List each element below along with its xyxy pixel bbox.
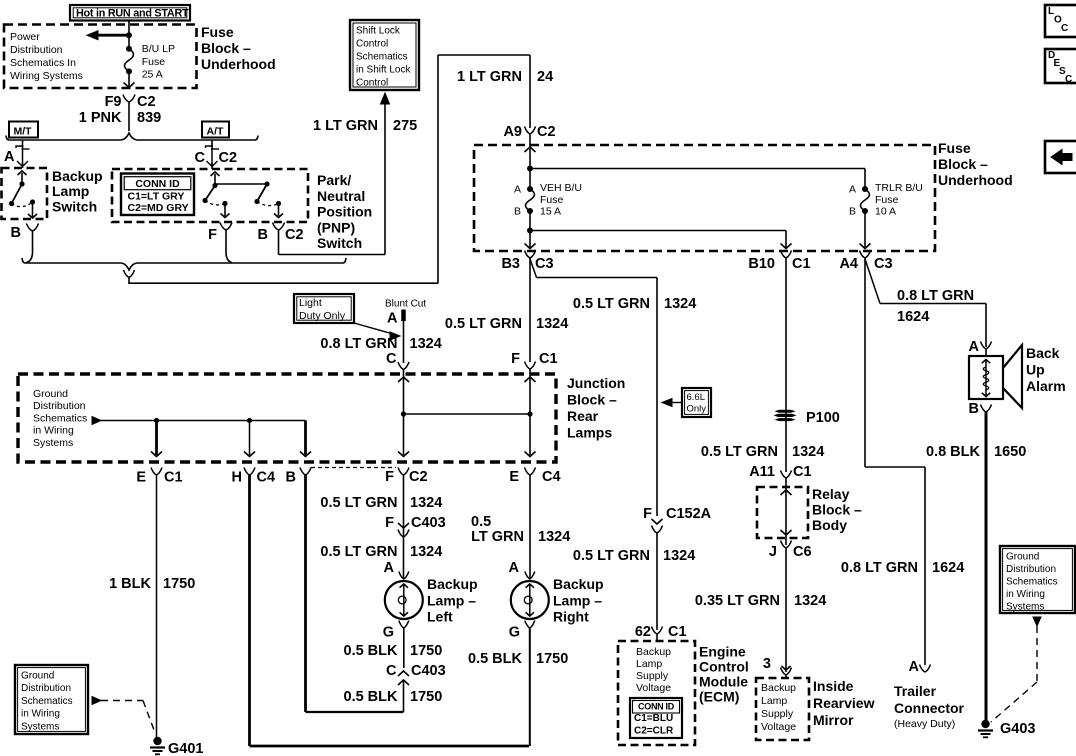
svg-text:Back: Back	[1026, 345, 1060, 361]
svg-text:J: J	[769, 544, 777, 560]
svg-text:F9: F9	[105, 94, 122, 110]
svg-text:C2: C2	[219, 150, 238, 166]
svg-text:C4: C4	[542, 469, 561, 485]
branch wire to B10 output	[530, 230, 786, 232]
svg-text:A: A	[509, 560, 520, 576]
brace splitting M/T and A/T	[6, 136, 9, 141]
dashed link B to F C2	[311, 467, 396, 469]
svg-text:Block –: Block –	[812, 502, 862, 518]
wire A/T branch down	[211, 140, 213, 147]
svg-text:0.5 LT GRN: 0.5 LT GRN	[573, 548, 650, 564]
junction block rear lamps dashed box	[18, 374, 556, 462]
relay block body dashed box	[757, 487, 808, 538]
svg-text:F: F	[385, 469, 394, 485]
ground bus drop to E C1	[155, 421, 158, 456]
svg-text:in Wiring: in Wiring	[1006, 589, 1045, 600]
svg-text:C2=MD GRY: C2=MD GRY	[128, 202, 189, 214]
svg-text:A11: A11	[749, 464, 775, 480]
svg-text:Underhood: Underhood	[201, 56, 276, 72]
PNP switch internal contacts	[214, 174, 216, 186]
pointer arrow light duty to wire	[354, 323, 393, 334]
svg-text:1750: 1750	[410, 689, 442, 705]
svg-text:B3: B3	[501, 256, 520, 272]
inside rearview mirror dashed box	[756, 678, 809, 740]
lt grn bus in junction block	[404, 413, 531, 415]
connector C C2 into PNP switch	[211, 146, 213, 167]
wire VEH fuse output	[529, 211, 531, 248]
svg-text:C2: C2	[137, 94, 156, 110]
svg-text:Voltage: Voltage	[761, 721, 796, 733]
svg-text:Relay: Relay	[812, 486, 850, 502]
svg-text:Systems: Systems	[1006, 602, 1044, 613]
svg-text:Schematics: Schematics	[33, 412, 87, 424]
branch wire A4 to back up alarm	[865, 259, 880, 304]
svg-text:Position: Position	[317, 204, 372, 220]
svg-text:C6: C6	[793, 544, 812, 560]
svg-text:Fuse: Fuse	[875, 194, 899, 206]
svg-text:Control: Control	[356, 39, 388, 50]
svg-text:P100: P100	[806, 410, 840, 426]
conn id table C1=LT GRY C2=MD GRY	[121, 174, 194, 216]
note box 6.6L Only	[682, 388, 711, 417]
svg-text:1324: 1324	[538, 529, 570, 545]
wire 0.8 BLK to G403	[985, 412, 988, 723]
svg-text:3: 3	[763, 656, 771, 672]
svg-text:0.8 BLK: 0.8 BLK	[926, 444, 981, 460]
ground bus drop to H C4	[249, 421, 251, 456]
svg-text:TRLR B/U: TRLR B/U	[875, 182, 923, 194]
wire A9 into fuses	[529, 134, 531, 189]
svg-text:Body: Body	[812, 517, 847, 533]
svg-text:0.5 BLK: 0.5 BLK	[468, 651, 523, 667]
svg-text:Fuse: Fuse	[201, 24, 234, 40]
svg-text:Alarm: Alarm	[1026, 378, 1066, 394]
svg-text:Control: Control	[356, 78, 388, 89]
svg-text:1750: 1750	[163, 576, 195, 592]
svg-text:1324: 1324	[663, 548, 695, 564]
svg-text:Shift Lock: Shift Lock	[356, 26, 401, 37]
svg-text:C403: C403	[411, 663, 446, 679]
svg-text:E: E	[509, 469, 519, 485]
wire E C1 to ground G401	[156, 475, 158, 738]
svg-text:0.8 LT GRN: 0.8 LT GRN	[320, 336, 397, 352]
note box Ground Distribution Schematics bottom left	[15, 665, 88, 734]
svg-text:C4: C4	[257, 470, 276, 486]
svg-text:F: F	[511, 351, 520, 367]
svg-text:C1: C1	[164, 470, 183, 486]
svg-text:VEH B/U: VEH B/U	[540, 182, 582, 194]
note box Light Duty Only	[294, 294, 354, 323]
svg-text:0.5: 0.5	[471, 514, 491, 530]
svg-text:Left: Left	[427, 609, 453, 625]
button LOC	[1045, 5, 1076, 37]
svg-text:Voltage: Voltage	[636, 682, 671, 694]
svg-text:M/T: M/T	[14, 126, 33, 138]
connector G backup lamp left	[399, 621, 409, 629]
svg-text:1324: 1324	[664, 296, 696, 312]
svg-text:Block –: Block –	[567, 392, 617, 408]
svg-text:Neutral: Neutral	[317, 188, 365, 204]
svg-text:C3: C3	[535, 256, 554, 272]
svg-text:Engine: Engine	[699, 644, 746, 660]
svg-text:A: A	[514, 184, 521, 196]
back up alarm coil	[985, 349, 987, 356]
svg-text:Lamp: Lamp	[761, 695, 787, 707]
svg-text:A: A	[969, 339, 980, 355]
ground G403	[981, 720, 989, 728]
svg-text:Park/: Park/	[317, 172, 351, 188]
wire F C2 down to backup lamp left	[403, 475, 405, 578]
pointer dashed to G401	[92, 697, 101, 705]
svg-text:Module: Module	[699, 674, 748, 690]
svg-text:B: B	[514, 206, 521, 218]
svg-text:1 LT GRN: 1 LT GRN	[457, 69, 522, 85]
pointer arrow 6.6L to wire	[671, 402, 682, 404]
svg-text:C2: C2	[537, 124, 556, 140]
engine control module dashed box	[618, 641, 695, 745]
svg-text:Backup: Backup	[636, 646, 671, 658]
svg-text:B: B	[11, 225, 21, 241]
wire B to backup lamp left ground	[304, 475, 307, 712]
button back arrow	[1045, 141, 1076, 173]
wire A4 down to trailer connector	[864, 258, 866, 467]
svg-text:62: 62	[635, 624, 651, 640]
svg-text:1750: 1750	[410, 643, 442, 659]
svg-text:Backup: Backup	[427, 576, 478, 592]
branch wire B3 to C152A / ECM	[530, 259, 537, 278]
fuse block underhood dashed box (power distribution)	[4, 25, 197, 89]
svg-text:Switch: Switch	[317, 235, 362, 251]
note box Shift Lock Control Schematics	[350, 20, 419, 90]
svg-text:Systems: Systems	[33, 437, 73, 449]
svg-text:0.5 LT GRN: 0.5 LT GRN	[573, 296, 650, 312]
svg-text:Distribution: Distribution	[33, 400, 86, 412]
svg-text:0.8 LT GRN: 0.8 LT GRN	[897, 288, 974, 304]
svg-text:Hot in RUN and START: Hot in RUN and START	[76, 8, 189, 20]
svg-text:G403: G403	[1000, 721, 1035, 737]
svg-text:Schematics In: Schematics In	[10, 57, 76, 69]
svg-text:F: F	[208, 227, 217, 243]
svg-text:Ground: Ground	[21, 671, 54, 682]
svg-text:C: C	[1065, 74, 1072, 85]
backup lamp switch contacts	[21, 173, 23, 184]
svg-text:1 PNK: 1 PNK	[79, 110, 122, 126]
wire B3 down to junction block F C1	[529, 258, 531, 362]
svg-text:Lamp –: Lamp –	[553, 592, 602, 608]
svg-text:in Wiring: in Wiring	[21, 709, 60, 720]
wire E C4 down to backup lamp right	[529, 475, 531, 578]
svg-text:Ground: Ground	[1006, 552, 1039, 563]
svg-text:Duty Only: Duty Only	[299, 310, 346, 322]
svg-text:A: A	[387, 311, 398, 327]
svg-text:E: E	[136, 470, 146, 486]
svg-text:G: G	[383, 625, 394, 641]
wire fuse output exits box	[128, 71, 130, 87]
svg-text:1324: 1324	[410, 495, 442, 511]
svg-text:F: F	[643, 506, 652, 522]
svg-text:C2: C2	[285, 227, 304, 243]
svg-text:0.5 BLK: 0.5 BLK	[344, 643, 399, 659]
svg-text:Block –: Block –	[201, 40, 251, 56]
svg-text:Mirror: Mirror	[813, 712, 854, 728]
svg-text:Connector: Connector	[894, 700, 965, 716]
svg-text:Right: Right	[553, 609, 589, 625]
svg-text:839: 839	[137, 110, 161, 126]
svg-text:Systems: Systems	[21, 721, 59, 732]
svg-text:C1: C1	[539, 351, 558, 367]
svg-text:Power: Power	[10, 31, 40, 43]
svg-text:C: C	[1061, 23, 1068, 34]
svg-text:Rearview: Rearview	[813, 695, 875, 711]
svg-text:1324: 1324	[410, 336, 442, 352]
ground bus drop to B	[304, 421, 307, 456]
svg-text:LT GRN: LT GRN	[471, 529, 524, 545]
svg-text:Block –: Block –	[938, 156, 988, 172]
brace merging M/T and A/T outputs	[22, 258, 25, 263]
wire J C6 down to mirror	[785, 548, 787, 672]
svg-text:1324: 1324	[536, 316, 568, 332]
wire merge output to fuse block underhood	[129, 282, 438, 284]
svg-text:Lamp: Lamp	[636, 658, 662, 670]
note box Ground Distribution Schematics right	[1000, 546, 1075, 613]
svg-text:0.5 BLK: 0.5 BLK	[344, 689, 399, 705]
svg-text:25 A: 25 A	[142, 69, 163, 81]
svg-text:Lamps: Lamps	[567, 425, 612, 441]
svg-text:B10: B10	[748, 256, 775, 272]
svg-text:C1=BLU: C1=BLU	[634, 713, 673, 724]
svg-text:0.8 LT GRN: 0.8 LT GRN	[841, 560, 918, 576]
svg-text:1 BLK: 1 BLK	[109, 576, 151, 592]
branch wire to TRLR fuse	[530, 168, 865, 170]
svg-text:Lamp –: Lamp –	[427, 592, 476, 608]
svg-text:B: B	[969, 401, 979, 417]
svg-text:Rear: Rear	[567, 408, 599, 424]
svg-text:24: 24	[537, 69, 553, 85]
svg-text:1650: 1650	[994, 444, 1026, 460]
svg-text:0.5 LT GRN: 0.5 LT GRN	[701, 444, 778, 460]
wire B10 down through P100	[785, 258, 787, 472]
svg-text:275: 275	[393, 118, 417, 134]
svg-text:Schematics: Schematics	[1006, 577, 1058, 588]
svg-text:1 LT GRN: 1 LT GRN	[313, 118, 378, 134]
tag M/T	[9, 122, 38, 138]
svg-text:Junction: Junction	[567, 375, 625, 391]
svg-text:CONN ID: CONN ID	[135, 178, 180, 190]
svg-text:Only: Only	[687, 404, 707, 415]
power feed tag box Hot in RUN and START	[70, 5, 190, 21]
fuse block underhood dashed box right	[474, 145, 935, 251]
wire TRLR fuse output	[864, 211, 866, 248]
svg-text:CONN ID: CONN ID	[638, 702, 675, 712]
connector below merge brace	[124, 270, 135, 278]
svg-text:Backup: Backup	[52, 168, 103, 184]
grommet P100	[775, 410, 796, 413]
svg-text:Control: Control	[699, 659, 749, 675]
svg-text:Underhood: Underhood	[938, 172, 1013, 188]
pointer dashed to G403	[1033, 617, 1041, 626]
wire F C1 to E C4 through junction block	[529, 374, 531, 455]
svg-text:Wiring Systems: Wiring Systems	[10, 70, 83, 82]
ground bus in junction block	[92, 417, 101, 425]
svg-text:1624: 1624	[932, 560, 964, 576]
connector G backup lamp right	[525, 621, 535, 629]
svg-text:C1: C1	[668, 624, 687, 640]
svg-text:C: C	[386, 663, 397, 679]
svg-text:0.5 LT GRN: 0.5 LT GRN	[445, 316, 522, 332]
svg-text:Backup: Backup	[761, 682, 796, 694]
svg-text:Light: Light	[299, 297, 322, 309]
svg-text:(Heavy Duty): (Heavy Duty)	[894, 718, 955, 730]
svg-text:1750: 1750	[536, 651, 568, 667]
connector A of backup lamp switch	[22, 146, 24, 167]
backup lamp right bulb	[511, 581, 549, 619]
svg-text:B: B	[849, 206, 856, 218]
svg-text:B/U LP: B/U LP	[142, 43, 175, 55]
wire B C2 to shift lock control	[278, 230, 280, 255]
svg-text:(PNP): (PNP)	[317, 219, 355, 235]
svg-text:0.5 LT GRN: 0.5 LT GRN	[320, 495, 397, 511]
connector F9 C2	[123, 95, 135, 103]
svg-text:C152A: C152A	[666, 506, 712, 522]
svg-text:Distribution: Distribution	[1006, 564, 1056, 575]
svg-text:6.6L: 6.6L	[687, 392, 706, 403]
svg-text:A: A	[4, 149, 15, 165]
svg-text:Blunt Cut: Blunt Cut	[385, 299, 426, 310]
svg-text:1324: 1324	[792, 444, 824, 460]
svg-text:Supply: Supply	[761, 708, 794, 720]
svg-text:G401: G401	[168, 741, 203, 756]
svg-text:C: C	[195, 150, 206, 166]
svg-text:C1: C1	[792, 256, 811, 272]
svg-text:1624: 1624	[897, 309, 929, 325]
svg-text:B: B	[258, 227, 268, 243]
wire M/T branch down	[22, 140, 24, 147]
tag A/T	[202, 122, 229, 138]
wire through relay block	[785, 478, 787, 545]
svg-text:C3: C3	[874, 256, 893, 272]
park/neutral position switch dashed box	[112, 169, 308, 222]
svg-text:A4: A4	[839, 256, 858, 272]
svg-text:H: H	[232, 470, 242, 486]
wire from Hot tag into fuse block	[128, 21, 130, 49]
svg-text:Fuse: Fuse	[540, 194, 564, 206]
svg-text:B: B	[286, 470, 296, 486]
svg-text:Fuse: Fuse	[938, 140, 971, 156]
svg-text:Schematics: Schematics	[21, 696, 73, 707]
svg-text:(ECM): (ECM)	[699, 689, 739, 705]
svg-text:Distribution: Distribution	[10, 44, 63, 56]
svg-text:G: G	[509, 625, 520, 641]
svg-text:Fuse: Fuse	[142, 56, 166, 68]
svg-text:A: A	[384, 560, 395, 576]
wire H C4 to backup lamp right ground	[248, 475, 251, 746]
ground G401	[153, 737, 161, 745]
svg-text:1324: 1324	[794, 593, 826, 609]
svg-text:Ground: Ground	[33, 388, 68, 400]
wire C to F C2 through junction block	[403, 374, 405, 455]
back up alarm body	[969, 356, 1003, 399]
svg-text:0.5 LT GRN: 0.5 LT GRN	[320, 544, 397, 560]
svg-text:Up: Up	[1026, 362, 1045, 378]
svg-text:C2: C2	[409, 469, 428, 485]
svg-text:Switch: Switch	[52, 198, 97, 214]
svg-text:C2=CLR: C2=CLR	[634, 726, 674, 737]
svg-text:1324: 1324	[410, 544, 442, 560]
conn id table ECM	[630, 698, 682, 738]
svg-text:10 A: 10 A	[875, 206, 896, 218]
svg-text:in Wiring: in Wiring	[33, 425, 74, 437]
svg-text:A9: A9	[503, 124, 522, 140]
svg-text:Inside: Inside	[813, 678, 854, 694]
fuse B/U LP 25A	[126, 46, 132, 52]
svg-text:C1=LT GRY: C1=LT GRY	[128, 191, 185, 203]
svg-text:C1: C1	[793, 464, 812, 480]
wire branch to power distribution with arrow	[95, 34, 129, 37]
svg-text:15 A: 15 A	[540, 206, 561, 218]
svg-text:A/T: A/T	[207, 126, 225, 138]
backup lamp switch dashed box	[2, 168, 48, 219]
svg-text:Trailer: Trailer	[894, 683, 937, 699]
svg-text:Lamp: Lamp	[52, 183, 89, 199]
button DESC	[1045, 49, 1076, 83]
svg-text:Supply: Supply	[636, 670, 669, 682]
svg-text:A: A	[909, 659, 920, 675]
svg-text:0.35 LT GRN: 0.35 LT GRN	[695, 593, 780, 609]
svg-text:Schematics: Schematics	[356, 52, 408, 63]
svg-text:in Shift Lock: in Shift Lock	[356, 65, 411, 76]
svg-text:C403: C403	[411, 515, 446, 531]
svg-text:C: C	[386, 351, 397, 367]
svg-text:F: F	[385, 515, 394, 531]
svg-text:Backup: Backup	[553, 576, 604, 592]
svg-text:Distribution: Distribution	[21, 683, 71, 694]
svg-text:A: A	[849, 184, 856, 196]
backup lamp left bulb	[385, 581, 423, 619]
